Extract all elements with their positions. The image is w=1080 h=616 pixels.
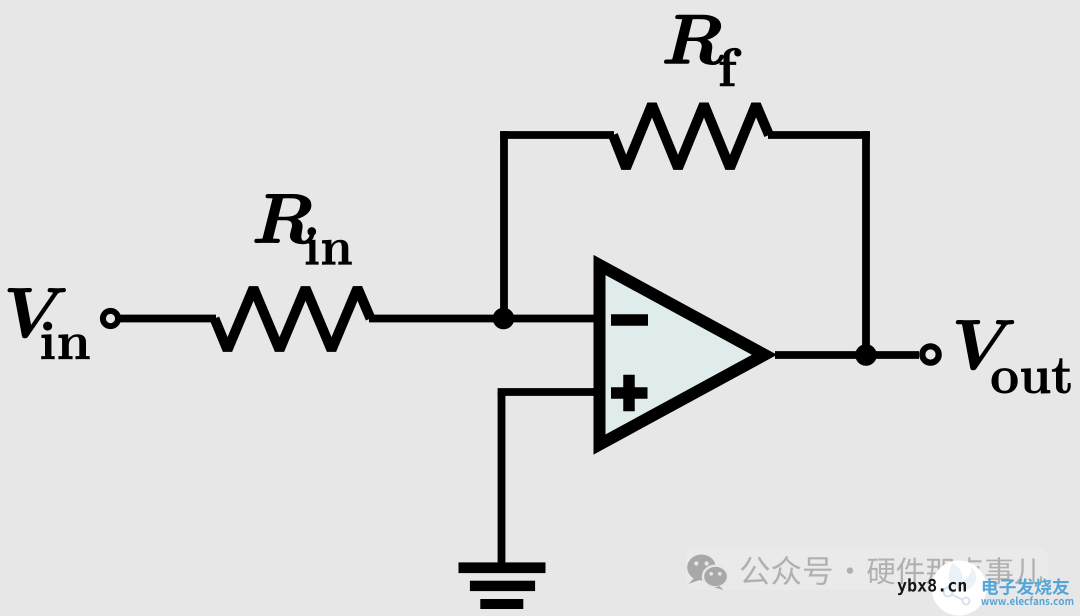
watermark elecfans logo circle <box>932 561 987 616</box>
label Rin <box>255 195 352 265</box>
wire ground vertical <box>498 392 506 563</box>
watermark wechat icon <box>687 555 728 591</box>
resistor Rin <box>215 288 371 350</box>
resistor Rf <box>613 104 769 168</box>
op-amp U1 <box>600 265 765 445</box>
op-amp U1 inverting pin minus sign <box>611 314 648 326</box>
label Vin <box>8 289 89 359</box>
wire input (Vin terminal to resistor Rin) <box>120 315 216 323</box>
node A (inverting input junction) <box>493 308 515 330</box>
wire non-inverting input horizontal <box>498 388 599 396</box>
wire output (op-amp to Vout terminal) <box>775 351 919 359</box>
terminal Vin <box>103 311 118 326</box>
wire feedback left vertical (node A up to feedback net) <box>500 131 508 318</box>
wire feedback top left <box>500 131 614 139</box>
label Vout <box>956 321 1070 394</box>
node B (output junction) <box>855 344 877 366</box>
watermark text gongzhonghao <box>741 556 1043 585</box>
watermark background band <box>686 548 1048 590</box>
wire feedback right vertical <box>862 131 870 355</box>
label Rf <box>665 15 742 86</box>
watermark text ybx8.cn <box>898 578 967 595</box>
watermark text elecfans <box>983 578 1069 595</box>
op-amp U1 non-inverting pin plus sign <box>611 387 648 399</box>
terminal Vout <box>922 346 938 362</box>
wire feedback top right <box>768 131 870 139</box>
wire resistor Rin to op-amp inverting input <box>369 315 599 323</box>
ground <box>459 562 546 609</box>
